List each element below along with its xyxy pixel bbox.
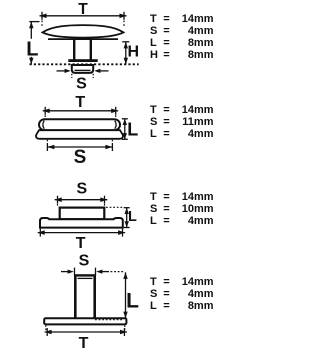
svg-text:14mm: 14mm (182, 104, 214, 116)
svg-text:=: = (163, 116, 169, 128)
fig1 washer bar (68, 59, 97, 62)
svg-text:=: = (163, 203, 169, 215)
svg-text:T: T (78, 1, 88, 18)
fig2 flange (36, 130, 123, 139)
fig4 base plate (44, 318, 126, 324)
svg-text:S: S (76, 75, 87, 92)
svg-text:T: T (150, 191, 157, 203)
svg-text:S: S (150, 116, 157, 128)
fig4 stem top cap (74, 274, 96, 276)
svg-text:H: H (150, 49, 158, 61)
svg-text:S: S (76, 180, 87, 197)
fig3 dimension S line (55, 196, 108, 207)
svg-text:L: L (150, 300, 157, 312)
svg-text:T: T (79, 335, 89, 350)
svg-text:=: = (163, 300, 169, 312)
svg-text:H: H (128, 44, 140, 61)
fig1 dimension H bracket (122, 42, 129, 65)
fig1 cap seam line (48, 38, 118, 40)
svg-text:=: = (163, 128, 169, 140)
fig4 dimension T line (45, 325, 127, 336)
svg-text:T: T (150, 104, 157, 116)
fig3 crown (60, 208, 105, 220)
fig3 dimension T line (38, 229, 125, 237)
svg-text:8mm: 8mm (188, 37, 214, 49)
fig4 dimension L bracket (95, 272, 128, 319)
fig1 stem right wall (90, 40, 92, 61)
fig1 dimension L bracket (26, 22, 40, 65)
fig1 dimension S arrows (57, 69, 109, 78)
fig2 dimension S line (47, 140, 112, 151)
fig4 stem right wall (93, 276, 96, 318)
fig3 brim (40, 218, 123, 228)
svg-text:8mm: 8mm (188, 300, 214, 312)
fig1 surface dashed line (30, 63, 139, 65)
fig2 cap stadium body (39, 119, 120, 130)
svg-text:L: L (127, 119, 138, 139)
fig1 dimension T line (40, 12, 127, 27)
svg-text:10mm: 10mm (182, 203, 214, 215)
svg-text:S: S (150, 25, 157, 37)
svg-text:=: = (163, 215, 169, 227)
fig4 stem left wall (74, 276, 77, 318)
svg-text:8mm: 8mm (188, 49, 214, 61)
svg-text:14mm: 14mm (182, 191, 214, 203)
svg-text:4mm: 4mm (188, 215, 214, 227)
fig4 stem inner top line (78, 277, 93, 279)
svg-text:=: = (163, 49, 169, 61)
fig2 cap inner end arcs (43, 121, 116, 129)
fig1 collar inner line (75, 69, 91, 71)
svg-text:L: L (128, 209, 137, 225)
svg-text:=: = (163, 104, 169, 116)
svg-text:L: L (150, 215, 157, 227)
svg-text:=: = (163, 37, 169, 49)
fig1 stem left wall (73, 40, 75, 61)
svg-text:T: T (150, 13, 157, 25)
fig3 dimension L bracket (106, 207, 130, 227)
svg-text:14mm: 14mm (182, 13, 214, 25)
svg-text:T: T (150, 276, 157, 288)
svg-text:L: L (150, 128, 157, 140)
svg-text:4mm: 4mm (188, 128, 214, 140)
svg-text:S: S (150, 288, 157, 300)
svg-text:L: L (26, 39, 38, 61)
svg-text:S: S (150, 203, 157, 215)
svg-text:=: = (163, 288, 169, 300)
svg-text:=: = (163, 276, 169, 288)
svg-text:L: L (150, 37, 157, 49)
svg-text:L: L (126, 289, 139, 312)
fig2 dimension T line (43, 107, 119, 119)
fig4 dimension S arrows (61, 268, 124, 276)
svg-text:S: S (74, 147, 87, 168)
svg-text:=: = (163, 191, 169, 203)
svg-text:T: T (75, 94, 85, 111)
svg-text:4mm: 4mm (188, 25, 214, 37)
svg-text:T: T (76, 235, 86, 252)
fig1 cap dome (43, 25, 124, 37)
svg-text:11mm: 11mm (182, 116, 213, 128)
svg-text:=: = (163, 25, 169, 37)
svg-text:S: S (79, 253, 90, 270)
svg-text:14mm: 14mm (182, 276, 214, 288)
fig1 collar below surface (72, 65, 93, 73)
fig2 dimension L bracket (122, 119, 128, 140)
svg-text:4mm: 4mm (188, 288, 214, 300)
svg-text:=: = (163, 13, 169, 25)
